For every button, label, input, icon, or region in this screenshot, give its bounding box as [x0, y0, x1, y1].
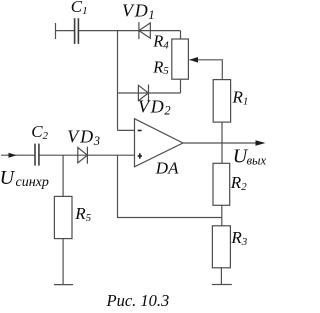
svg-text:синхр: синхр	[16, 175, 49, 190]
svg-text:Рис. 10.3: Рис. 10.3	[106, 291, 170, 310]
svg-text:DA: DA	[155, 158, 179, 177]
svg-text:вых: вых	[247, 154, 267, 168]
svg-text:U: U	[0, 167, 16, 189]
